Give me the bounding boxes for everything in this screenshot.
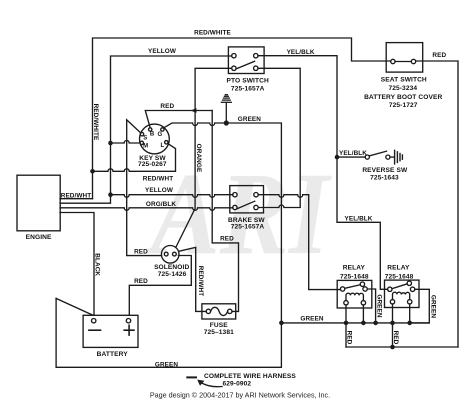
- label brake switch: [228, 217, 265, 231]
- svg-text:ORG/BLK: ORG/BLK: [146, 201, 176, 208]
- svg-text:RED: RED: [392, 331, 399, 345]
- fuse: [202, 304, 236, 319]
- wire battery plus red to solenoid: [129, 256, 191, 316]
- wire pto bottom right to brake: [258, 68, 300, 207]
- svg-text:GREEN: GREEN: [155, 361, 179, 368]
- label relay2: [385, 265, 414, 281]
- wire solenoid red/wht to fuse: [179, 247, 207, 311]
- svg-text:725–1381: 725–1381: [204, 329, 234, 336]
- svg-text:PTO SWITCH: PTO SWITCH: [227, 78, 269, 85]
- wire orange PTO to solenoid: [176, 68, 232, 247]
- wire relay1 coil right drop: [362, 305, 364, 323]
- svg-text:725-3234: 725-3234: [388, 85, 417, 92]
- wire brake top right to relay1: [258, 195, 340, 290]
- svg-text:COMPLETE WIRE HARNESS: COMPLETE WIRE HARNESS: [204, 373, 296, 380]
- label relay1: [340, 265, 369, 281]
- svg-text:RELAY: RELAY: [387, 265, 410, 272]
- svg-text:629-0902: 629-0902: [223, 381, 252, 388]
- svg-text:RED/WHT: RED/WHT: [197, 266, 204, 297]
- wire red/white top: [93, 38, 391, 199]
- svg-text:YELLOW: YELLOW: [148, 48, 177, 55]
- relay2: [385, 280, 420, 307]
- label reverse switch: [362, 167, 408, 181]
- svg-text:FUSE: FUSE: [210, 322, 228, 329]
- svg-text:REVERSE SW: REVERSE SW: [362, 167, 408, 174]
- svg-text:YEL/BLK: YEL/BLK: [344, 216, 372, 223]
- svg-text:YEL/BLK: YEL/BLK: [339, 150, 367, 157]
- svg-text:725-1426: 725-1426: [158, 271, 187, 278]
- key switch: [140, 124, 170, 154]
- svg-text:RED: RED: [220, 235, 234, 242]
- svg-text:BATTERY BOOT COVER: BATTERY BOOT COVER: [364, 94, 442, 101]
- label seat switch: [364, 76, 442, 109]
- svg-text:RED: RED: [345, 331, 352, 345]
- wire fuse to key B red: [212, 111, 238, 312]
- svg-text:GREEN: GREEN: [375, 294, 382, 318]
- svg-text:ORANGE: ORANGE: [195, 144, 202, 173]
- svg-text:RED/WHT: RED/WHT: [143, 176, 174, 183]
- svg-text:BLACK: BLACK: [93, 253, 100, 276]
- svg-text:M: M: [143, 144, 148, 150]
- seat switch: [386, 43, 423, 73]
- label fuse: [204, 322, 234, 336]
- svg-text:YELLOW: YELLOW: [145, 187, 174, 194]
- svg-text:GREEN: GREEN: [300, 315, 324, 322]
- wire engine red/white stub: [60, 198, 93, 200]
- key terminal letters: [143, 131, 164, 149]
- harness arrow: [187, 377, 222, 386]
- label solenoid: [154, 264, 189, 278]
- wire relay1 coil left drop: [345, 305, 347, 347]
- svg-text:Page design © 2004-2017 by ARI: Page design © 2004-2017 by ARI Network S…: [150, 390, 330, 399]
- wire black engine to battery: [60, 213, 94, 316]
- wire green bus: [281, 322, 429, 324]
- svg-text:G: G: [157, 132, 162, 138]
- wire reverse switch feed: [337, 156, 365, 158]
- wire key B red: [145, 111, 212, 128]
- svg-text:RED: RED: [160, 103, 174, 110]
- svg-text:RED: RED: [134, 278, 148, 285]
- wire yellow mid: [111, 195, 234, 198]
- svg-text:725-1648: 725-1648: [385, 274, 414, 281]
- svg-text:725-1657A: 725-1657A: [231, 85, 265, 92]
- svg-text:RELAY: RELAY: [343, 265, 366, 272]
- svg-text:RED/WHITE: RED/WHITE: [92, 104, 99, 141]
- wire relay2 green loop: [410, 289, 430, 323]
- wire engine to yellow rail: [60, 195, 111, 204]
- wire key G green: [164, 123, 282, 323]
- svg-text:RED/WHITE: RED/WHITE: [194, 30, 231, 37]
- svg-text:RED: RED: [432, 52, 446, 59]
- ground symbol: [221, 95, 231, 123]
- svg-text:725-0267: 725-0267: [138, 161, 167, 168]
- svg-text:RED/WHT: RED/WHT: [61, 192, 92, 199]
- wire yel/blk from PTO to relay2: [258, 56, 388, 290]
- svg-text:RED: RED: [134, 248, 148, 255]
- svg-text:725-1648: 725-1648: [340, 274, 369, 281]
- wire key M: [111, 141, 140, 144]
- svg-text:GREEN: GREEN: [430, 295, 437, 319]
- wire red/wht key L to left rail: [93, 144, 176, 172]
- svg-text:B: B: [150, 131, 155, 137]
- relay1: [337, 280, 372, 308]
- svg-text:L: L: [160, 143, 164, 149]
- wire red from seat switch right: [416, 61, 458, 347]
- label complete wire harness: [204, 373, 296, 388]
- wire org/blk: [60, 208, 233, 211]
- svg-text:S: S: [143, 136, 147, 142]
- svg-text:SEAT SWITCH: SEAT SWITCH: [381, 76, 427, 83]
- svg-text:725-1657A: 725-1657A: [231, 224, 265, 231]
- reverse switch: [365, 150, 402, 164]
- wire red bus: [346, 346, 458, 348]
- wire relay1 green loop: [367, 289, 375, 323]
- svg-text:725-1727: 725-1727: [389, 102, 418, 109]
- svg-text:ENGINE: ENGINE: [26, 234, 52, 241]
- arrowhead on red wire: [191, 108, 197, 113]
- brake switch: [230, 186, 264, 213]
- label pto switch: [227, 78, 269, 93]
- wire bottom green: [56, 298, 281, 367]
- PTO switch: [228, 47, 264, 74]
- svg-text:YEL/BLK: YEL/BLK: [287, 49, 315, 56]
- wire key S red to solenoid: [127, 120, 162, 256]
- solenoid: [161, 246, 179, 264]
- wire chassis diagonal: [56, 298, 93, 315]
- wire yellow top: [111, 56, 232, 195]
- wire relay2 coil left drop: [392, 304, 394, 347]
- svg-text:725-1643: 725-1643: [370, 175, 399, 182]
- battery box: [83, 315, 138, 347]
- engine box: [17, 175, 60, 231]
- wire relay2 coil right drop: [409, 304, 411, 323]
- label key switch: [138, 155, 167, 168]
- svg-text:GREEN: GREEN: [238, 116, 262, 123]
- svg-text:BATTERY: BATTERY: [97, 351, 129, 358]
